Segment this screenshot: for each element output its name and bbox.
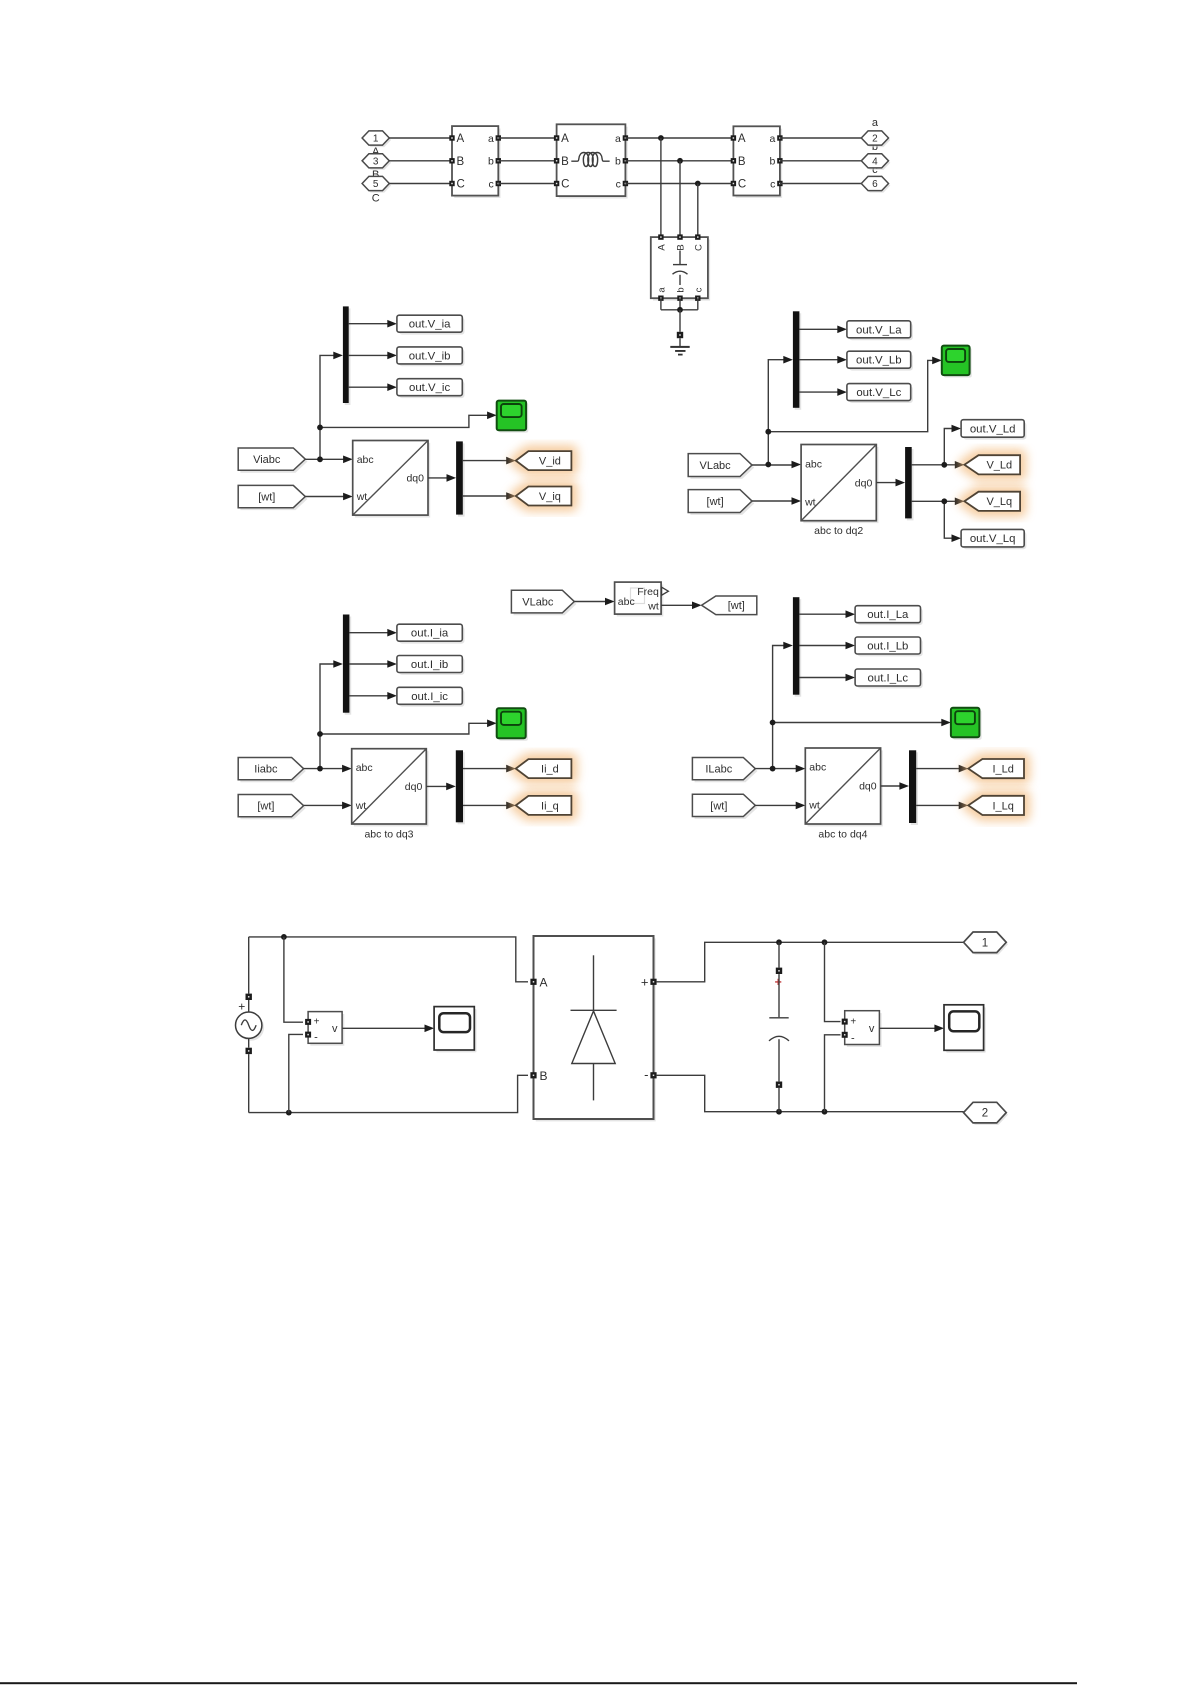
wire BS3 to out.V_Lc (799, 391, 838, 393)
arrow into BS4 (896, 479, 906, 487)
scope S1 (497, 401, 529, 433)
svg-text:[wt]: [wt] (710, 800, 727, 812)
svg-text:V_iq: V_iq (539, 491, 561, 503)
from tag [wt] 4 (692, 794, 757, 819)
svg-text:A: A (457, 133, 465, 145)
junction on ILabc branch (770, 720, 776, 726)
AC voltage source V0 (236, 1012, 265, 1041)
arrow into out.I_ic (387, 692, 397, 700)
svg-text:wt: wt (647, 601, 659, 613)
svg-text:4: 4 (872, 156, 878, 167)
svg-text:[wt]: [wt] (258, 491, 275, 503)
wire B1.b to B2.B (498, 160, 556, 162)
svg-text:out.V_Lc: out.V_Lc (856, 387, 901, 399)
voltage measurement V1 (305, 1012, 344, 1046)
arrow into I_Lq (959, 802, 969, 810)
wire B2.c to B3.C (625, 183, 733, 185)
wire [wt] to U1.wt (305, 496, 344, 498)
svg-text:c: c (616, 178, 621, 190)
arrow into scope S1 (487, 412, 497, 420)
scope S6 (944, 1005, 986, 1053)
svg-text:dq0: dq0 (859, 781, 877, 793)
wire BS2 to V_iq (463, 495, 508, 497)
wire node c down to capacitor bank C (697, 184, 699, 238)
svg-text:abc to dq3: abc to dq3 (364, 829, 413, 841)
scope S5 (434, 1007, 476, 1053)
arrow into out.V_ic (387, 383, 397, 391)
arrow into BS3 (783, 356, 793, 364)
port square capacitor bottom (776, 1082, 782, 1088)
svg-text:[wt]: [wt] (257, 801, 274, 813)
goto tag Ii_q (516, 796, 572, 815)
goto out.I_Lc (855, 669, 923, 688)
arrow into Ii_d (506, 765, 516, 773)
goto out.V_Lc (847, 384, 913, 403)
wire cap a down (660, 298, 662, 310)
arrow into U3.abc (342, 765, 352, 773)
wire BS2 to V_id (463, 460, 508, 462)
svg-text:out.V_Ld: out.V_Ld (970, 423, 1016, 435)
junction cap bottom (776, 1109, 782, 1115)
wire branch to V1 minus (289, 1034, 303, 1112)
svg-text:I_Ld: I_Ld (992, 764, 1013, 776)
wire top rail to capacitor (778, 942, 780, 967)
svg-text:1: 1 (982, 937, 988, 949)
arrow into PLL.abc (605, 598, 615, 606)
svg-text:abc to dq4: abc to dq4 (818, 829, 867, 841)
arrow into U2.wt (792, 497, 802, 505)
svg-text:abc: abc (357, 454, 374, 466)
from tag [wt] 2 (688, 490, 754, 515)
wire BS1 to out.V_ib (349, 354, 388, 356)
abc-to-dq0 block U4 (805, 748, 883, 841)
svg-text:B: B (540, 1069, 548, 1083)
svg-text:out.V_ia: out.V_ia (409, 319, 451, 331)
wire port5 to B1.C (389, 183, 452, 185)
wire BS7 to out.I_La (799, 613, 846, 615)
wire B1.c to B2.C (498, 183, 556, 185)
svg-text:v: v (869, 1023, 875, 1035)
arrow into BS1 (333, 352, 343, 360)
junction node c (695, 181, 701, 187)
svg-text:A: A (540, 976, 548, 990)
svg-text:-: - (851, 1032, 855, 1044)
arrow into out.I_ia (387, 629, 397, 637)
wire BS7 to out.I_Lc (799, 677, 846, 679)
svg-text:+: + (850, 1017, 856, 1028)
junction V2 top (822, 939, 828, 945)
wire BS5 to out.I_ic (349, 695, 388, 697)
svg-text:v: v (332, 1023, 338, 1035)
arrow into [wt] tag (692, 602, 702, 610)
wire BS5 to out.I_ia (349, 632, 388, 634)
arrow into out.V_Lq (952, 534, 962, 542)
goto out.V_Lb (847, 351, 913, 370)
wire bridge - to bottom rail (657, 1075, 964, 1111)
svg-text:a: a (615, 133, 621, 145)
wire U2.dq0 to BS4 (876, 482, 896, 484)
svg-text:V_id: V_id (539, 456, 561, 468)
svg-text:a: a (872, 117, 879, 129)
svg-text:Ii_d: Ii_d (541, 764, 559, 776)
svg-text:Viabc: Viabc (253, 454, 281, 466)
voltage measurement V2 (842, 1011, 882, 1047)
goto tag V_iq (516, 487, 572, 506)
svg-text:dq0: dq0 (855, 477, 873, 489)
abc-to-dq0 block U1 (353, 441, 431, 518)
svg-text:C: C (561, 179, 569, 191)
arrow into out.V_La (837, 326, 847, 334)
port square neutral (677, 332, 683, 338)
wire source to top rail (248, 937, 250, 994)
svg-text:C: C (372, 192, 380, 204)
wire neutral to ground port (679, 310, 681, 332)
goto out.I_Lb (855, 637, 923, 656)
svg-text:[wt]: [wt] (707, 496, 724, 508)
bus selector BS5 (343, 615, 351, 715)
svg-text:I_Lq: I_Lq (992, 800, 1013, 812)
svg-text:out.I_ib: out.I_ib (411, 659, 448, 671)
svg-text:-: - (644, 1067, 648, 1082)
wire source top to port square (248, 1000, 250, 1012)
wire branch to BS7 input (773, 646, 785, 769)
svg-text:A: A (656, 244, 667, 251)
goto out.V_La (847, 321, 913, 340)
arrow into out.I_Lb (846, 642, 856, 650)
wire U1.dq0 to BS2 (428, 477, 448, 479)
wire B2.b to B3.B (625, 160, 733, 162)
svg-text:C: C (693, 244, 704, 251)
svg-text:+: + (314, 1016, 320, 1027)
svg-text:6: 6 (872, 179, 878, 190)
wire BS8 to I_Lq (916, 804, 960, 806)
bus selector BS2 (456, 441, 465, 516)
wire VLabc to PLL.abc (574, 601, 606, 603)
wire [wt] to U4.wt (755, 804, 797, 806)
goto tag Ii_d (516, 759, 572, 778)
arrow into scope S3 (487, 720, 497, 728)
arrow into U2.abc (792, 461, 802, 469)
PLL block (615, 582, 664, 616)
output port 2 (861, 131, 890, 147)
page bottom rule (0, 1682, 1077, 1684)
svg-text:VLabc: VLabc (522, 596, 554, 608)
svg-text:out.V_La: out.V_La (856, 324, 902, 336)
wire ground stub (679, 338, 681, 346)
PLL Freq output chevron (662, 587, 669, 595)
svg-text:abc: abc (805, 458, 822, 470)
goto out.I_ic (397, 687, 465, 706)
goto out.V_Ld (961, 420, 1026, 440)
wire BS1 to out.V_ia (349, 323, 388, 325)
wire node b down to capacitor bank B (679, 161, 681, 237)
wire capacitor to bottom rail (778, 1088, 780, 1112)
capacitor C1 (769, 974, 789, 1081)
wire Viabc to U1.abc (305, 458, 344, 460)
junction V_Lq branch (941, 498, 947, 504)
scope S3 (497, 708, 528, 740)
arrow into BS5 (333, 660, 343, 668)
wire V2 to scope S6 (879, 1027, 935, 1029)
svg-text:[wt]: [wt] (728, 600, 745, 612)
svg-text:out.V_ic: out.V_ic (409, 382, 450, 394)
output port 4 (861, 154, 890, 170)
svg-text:b: b (488, 156, 494, 168)
bus selector BS4 (905, 447, 913, 520)
svg-text:+: + (641, 974, 649, 989)
svg-text:1: 1 (373, 134, 379, 145)
series RLC branch block B2 (554, 124, 628, 198)
goto out.V_ic (397, 379, 465, 398)
from tag Viabc (238, 448, 307, 473)
arrow into V_iq (506, 492, 516, 500)
three-phase block B3 (731, 126, 783, 198)
wire cap c down (697, 298, 699, 310)
arrow into U4.wt (796, 802, 806, 810)
arrow into scope S5 (425, 1025, 435, 1033)
arrow into U4.abc (796, 765, 806, 773)
junction node b (677, 158, 683, 164)
ground (670, 346, 689, 356)
svg-text:out.I_La: out.I_La (867, 609, 909, 621)
svg-text:out.V_Lq: out.V_Lq (970, 533, 1016, 545)
svg-text:b: b (615, 156, 621, 168)
goto tag I_Lq (968, 796, 1024, 815)
svg-text:B: B (457, 156, 465, 168)
wire port1 to B1.A (389, 137, 452, 139)
svg-text:3: 3 (373, 156, 379, 167)
wire cap b down (679, 298, 681, 310)
wire neutral bus (661, 309, 698, 311)
arrow into V_Ld (955, 461, 965, 469)
arrow into BS7 (783, 642, 793, 650)
goto tag V_id (516, 451, 572, 470)
goto out.V_Lq (961, 529, 1026, 549)
svg-text:5: 5 (373, 179, 379, 190)
wire source to bottom rail (248, 1054, 250, 1113)
junction Viabc (317, 456, 323, 462)
wire bottom rail to V2 minus (825, 1035, 841, 1112)
wire BS4 to V_Ld (912, 464, 956, 466)
port square source - (246, 1048, 252, 1054)
bus selector BS3 (793, 311, 801, 410)
junction on Viabc branch (317, 425, 323, 431)
svg-text:V_Ld: V_Ld (986, 460, 1012, 472)
svg-text:b: b (676, 287, 687, 292)
wire bridge + to top rail (657, 942, 964, 982)
arrow into out.I_Lc (846, 674, 856, 682)
goto out.V_ib (397, 347, 465, 366)
from tag VLabc (688, 454, 754, 479)
goto tag V_Lq (964, 492, 1020, 511)
svg-text:abc to dq2: abc to dq2 (814, 525, 863, 537)
svg-text:dq0: dq0 (406, 473, 424, 485)
wire [wt] to U2.wt (752, 500, 793, 502)
svg-text:out.I_ic: out.I_ic (411, 691, 448, 703)
svg-text:wt: wt (808, 800, 820, 812)
arrow into BS6 (446, 783, 456, 791)
junction V2 bottom (822, 1109, 828, 1115)
arrow into V_id (506, 457, 516, 465)
junction VLabc (765, 462, 771, 468)
junction neutral (677, 307, 683, 313)
svg-text:C: C (457, 179, 465, 191)
bus selector BS1 (343, 306, 351, 405)
scope S2 (942, 346, 972, 378)
goto out.V_ia (397, 315, 465, 334)
arrow into scope S6 (934, 1025, 944, 1033)
label + of capacitor (775, 979, 781, 985)
wire PLL.wt to [wt] (661, 604, 693, 606)
wire BS8 to I_Ld (916, 768, 960, 770)
wire branch to BS5 input (320, 664, 334, 769)
svg-text:wt: wt (356, 491, 368, 503)
top rail left (249, 937, 528, 982)
junction V_Ld branch (941, 462, 947, 468)
junction cap top (776, 939, 782, 945)
svg-text:c: c (693, 287, 704, 292)
svg-text:+: + (238, 1000, 245, 1014)
svg-text:wt: wt (355, 800, 367, 812)
svg-text:2: 2 (872, 134, 878, 145)
wire VLabc to U2.abc (752, 464, 793, 466)
wire branch to scope S2 (768, 360, 933, 431)
wire Iiabc to U3.abc (304, 768, 344, 770)
wire node a down to capacitor bank A (660, 138, 662, 237)
arrow into scope S2 (932, 357, 942, 365)
arrow into U1.abc (343, 456, 353, 464)
bottom rail left (249, 1075, 528, 1112)
svg-text:out.I_Lb: out.I_Lb (867, 641, 908, 653)
arrow into Ii_q (506, 802, 516, 810)
svg-text:a: a (770, 133, 776, 145)
goto out.I_ia (397, 624, 465, 643)
wire branch to BS1 input (320, 355, 334, 459)
three-phase capacitor bank C0 (651, 234, 710, 301)
junction ILabc (770, 766, 776, 772)
from tag [wt] 1 (238, 485, 307, 510)
goto tag [wt] (702, 596, 757, 615)
port square source + (246, 994, 252, 1000)
input port 5 (362, 176, 391, 192)
from tag VLabc 2 (511, 590, 576, 615)
three-phase block B1 (449, 126, 501, 198)
junction bottom rail left (286, 1110, 292, 1116)
junction on Iiabc branch (317, 731, 323, 737)
wire BS5 to out.I_ib (349, 663, 388, 665)
wire branch to V1 plus (284, 937, 303, 1022)
svg-text:V_Lq: V_Lq (986, 496, 1012, 508)
svg-text:out.V_Lb: out.V_Lb (856, 355, 902, 367)
arrow into out.V_ia (387, 320, 397, 328)
goto out.I_ib (397, 656, 465, 675)
junction top rail left (281, 934, 287, 940)
scope S4 (951, 708, 982, 740)
wire branch to BS3 input (768, 360, 784, 465)
input port 3 (362, 154, 391, 170)
bus selector BS8 (909, 750, 918, 825)
arrow into out.V_Ld (952, 425, 962, 433)
junction Iiabc (317, 766, 323, 772)
connection port 2 (964, 1102, 1009, 1125)
input port 1 (362, 131, 391, 147)
arrow into U3.wt (342, 802, 352, 810)
svg-text:out.I_ia: out.I_ia (411, 628, 449, 640)
junction on VLabc branch (765, 429, 771, 435)
svg-text:a: a (488, 133, 494, 145)
bus selector BS6 (456, 750, 465, 824)
wire BS4 to V_Lq (912, 500, 956, 502)
wire BS3 to out.V_Lb (799, 359, 838, 361)
wire BS3 to out.V_La (799, 328, 838, 330)
svg-text:wt: wt (804, 496, 816, 508)
goto tag V_Ld (964, 455, 1020, 474)
wire B3.a to port2 (780, 137, 862, 139)
goto tag I_Ld (968, 759, 1024, 778)
svg-text:A: A (738, 133, 746, 145)
goto out.I_La (855, 606, 923, 625)
junction node a (658, 135, 664, 141)
svg-text:b: b (770, 156, 776, 168)
from tag Iiabc (238, 758, 306, 783)
svg-text:B: B (738, 156, 746, 168)
wire branch to scope S1 (320, 415, 488, 427)
bus selector BS7 (793, 597, 801, 697)
wire U4.dq0 to BS8 (881, 785, 901, 787)
wire branch to scope S3 (320, 723, 488, 734)
wire BS6 to Ii_d (463, 768, 507, 770)
wire B3.c to port6 (780, 183, 862, 185)
wire B2.a to B3.A (625, 137, 733, 139)
arrow into U1.wt (343, 493, 353, 501)
wire ILabc to U4.abc (755, 768, 797, 770)
svg-text:-: - (314, 1032, 318, 1044)
svg-text:ILabc: ILabc (705, 764, 732, 776)
wire B3.b to port4 (780, 160, 862, 162)
svg-text:abc: abc (809, 762, 826, 774)
connection port 1 (964, 932, 1009, 955)
wire V1 to scope S5 (342, 1027, 426, 1029)
wire BS6 to Ii_q (463, 804, 507, 806)
universal bridge rectifier (530, 936, 656, 1121)
wire [wt] to U3.wt (304, 804, 344, 806)
arrow into BS8 (899, 782, 909, 790)
wire B1.a to B2.A (498, 137, 556, 139)
wire BS7 to out.I_Lb (799, 645, 846, 647)
from tag [wt] 3 (238, 795, 306, 820)
svg-text:a: a (656, 287, 667, 293)
arrow into out.I_ib (387, 660, 397, 668)
svg-text:B: B (561, 156, 569, 168)
svg-text:dq0: dq0 (405, 781, 423, 793)
arrow into I_Ld (959, 765, 969, 773)
svg-text:B: B (676, 244, 687, 250)
arrow into V_Lq (955, 498, 965, 506)
svg-text:Iiabc: Iiabc (254, 764, 278, 776)
svg-text:c: c (489, 178, 494, 190)
arrow into BS2 (447, 474, 457, 482)
svg-text:C: C (738, 179, 746, 191)
output port 6 (861, 176, 890, 192)
svg-text:Ii_q: Ii_q (541, 800, 559, 812)
svg-text:c: c (770, 178, 775, 190)
wire BS1 to out.V_ic (349, 386, 388, 388)
wire source bottom to port square (248, 1038, 250, 1047)
arrow into out.V_ib (387, 352, 397, 360)
svg-text:VLabc: VLabc (699, 460, 731, 472)
wire branch down to out.V_Lq (944, 501, 952, 538)
wire top rail to V2 plus (825, 942, 841, 1021)
